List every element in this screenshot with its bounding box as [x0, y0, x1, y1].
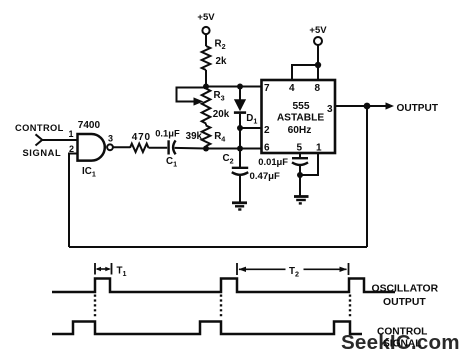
svg-text:8: 8	[315, 83, 321, 94]
svg-text:T2: T2	[289, 266, 299, 279]
wire R4 to signal node	[205, 146, 207, 149]
dotted sync line 2	[220, 295, 222, 320]
wire supply node to pin 4	[292, 65, 318, 80]
dotted sync line 3	[349, 295, 351, 320]
wire pin 5 down	[299, 153, 301, 158]
svg-text:0.1μF: 0.1μF	[155, 128, 180, 139]
svg-text:OSCILLATOR: OSCILLATOR	[372, 284, 439, 295]
wire to 555 pin 2	[240, 127, 262, 129]
svg-text:6: 6	[264, 142, 270, 153]
svg-text:2k: 2k	[216, 56, 227, 67]
svg-text:7400: 7400	[78, 120, 101, 131]
svg-text:OUTPUT: OUTPUT	[397, 103, 439, 114]
svg-text:SeekIC.com: SeekIC.com	[341, 331, 460, 354]
svg-text:R2: R2	[215, 39, 226, 52]
wire node A to 555 pin 7	[206, 86, 262, 88]
ground below pin 1	[294, 197, 309, 204]
wire signal line down to C2	[239, 149, 241, 168]
capacitor C1	[169, 140, 176, 154]
ground below C2	[232, 203, 247, 210]
label R3	[213, 90, 230, 120]
svg-text:OUTPUT: OUTPUT	[383, 297, 426, 308]
svg-text:470: 470	[132, 132, 151, 143]
wire 470 to C1	[149, 147, 168, 149]
capacitor C2	[232, 168, 248, 175]
svg-text:555: 555	[293, 101, 310, 112]
wire signal node to diode column	[206, 148, 240, 150]
wire pin2 node down to signal line	[239, 128, 241, 149]
wire C1 to signal node	[175, 147, 206, 150]
svg-text:5: 5	[297, 142, 303, 153]
wire D1 to pin2 node	[239, 114, 241, 128]
svg-text:20k: 20k	[213, 109, 230, 120]
node signal junction dot (R4/C1/pin6 line)	[203, 146, 209, 152]
svg-text:60Hz: 60Hz	[288, 125, 312, 136]
wire node to ground	[299, 175, 301, 196]
wire gate output to 470	[113, 146, 130, 148]
junction dot diode column on signal line	[237, 146, 243, 152]
wire +5V terminal to R2	[205, 34, 207, 46]
svg-text:C1: C1	[166, 156, 177, 169]
svg-text:1: 1	[69, 129, 74, 139]
dotted sync line 1	[94, 295, 96, 320]
svg-text:0.47μF: 0.47μF	[250, 171, 281, 182]
wire cap to ground node	[299, 165, 301, 175]
svg-text:0.01μF: 0.01μF	[258, 156, 288, 167]
wire pin2 feedback down	[69, 154, 78, 248]
waveform oscillator output trace	[52, 279, 395, 293]
resistor R2	[202, 46, 211, 70]
svg-text:ASTABLE: ASTABLE	[277, 113, 325, 124]
svg-text:R4: R4	[214, 131, 225, 144]
NAND gate IC1 body	[78, 134, 105, 161]
label OSCILLATOR OUTPUT	[372, 284, 439, 308]
potentiometer R3 body	[202, 89, 211, 124]
svg-text:4: 4	[289, 83, 295, 94]
resistor 470	[130, 144, 149, 152]
capacitor 0.01uF on pin 5	[292, 158, 308, 165]
wire output arrow	[367, 105, 388, 107]
junction dot diode branch on pin7 wire	[237, 84, 243, 90]
wire input to pin 1 of IC1	[42, 139, 79, 141]
waveform control signal trace	[52, 322, 362, 335]
wire C2 to ground	[239, 175, 241, 202]
label CONTROL SIGNAL	[377, 326, 427, 349]
wire signal to 555 pin 6	[240, 148, 262, 150]
svg-text:3: 3	[108, 134, 113, 144]
output arrowhead	[386, 102, 395, 109]
svg-text:R3: R3	[214, 90, 225, 103]
svg-text:2: 2	[264, 125, 270, 136]
potentiometer R3 wiper arrowhead	[194, 97, 204, 105]
svg-text:CONTROL: CONTROL	[15, 123, 64, 133]
junction dot pin2 wire	[237, 125, 243, 131]
wire +5V to pins 4,8	[317, 45, 319, 80]
node A junction dot (R2/R3/pin7)	[203, 84, 209, 90]
wire feedback: output node down	[366, 106, 368, 247]
svg-text:3: 3	[327, 104, 333, 115]
input arrow terminal	[36, 134, 43, 145]
node output junction dot	[364, 103, 371, 110]
junction dot supply node	[315, 62, 321, 68]
node +5V (right supply terminal)	[309, 25, 327, 45]
svg-text:T1: T1	[117, 266, 127, 279]
op-amp/timer U1 555 ASTABLE block	[262, 80, 336, 153]
resistor R4	[202, 126, 211, 147]
label 39k R4	[186, 131, 226, 144]
wire 555 pin 3 to output node	[335, 105, 367, 107]
diode D1	[234, 99, 246, 112]
NAND gate IC1 output bubble	[107, 144, 113, 150]
svg-text:IC1: IC1	[82, 166, 96, 179]
svg-text:D1: D1	[246, 113, 257, 126]
svg-text:+5V: +5V	[309, 25, 327, 36]
wire R3 to R4	[205, 124, 207, 126]
svg-text:39k: 39k	[186, 131, 203, 142]
wire R2 to node A	[205, 70, 207, 87]
dimension T1 ticks and arrows	[95, 263, 112, 275]
wire pin7 node down to D1	[239, 87, 241, 100]
wire pin 1 down and left	[300, 153, 318, 175]
label R2 value	[215, 39, 227, 67]
wire feedback bottom run	[69, 246, 367, 248]
node +5V (left supply terminal)	[197, 12, 215, 34]
junction dot pin1/cap	[297, 172, 303, 178]
svg-text:SIGNAL: SIGNAL	[23, 148, 62, 158]
dimension T2 ticks and arrows	[237, 263, 349, 275]
label CONTROL SIGNAL input	[15, 123, 64, 158]
potentiometer R3 wiper loop wire	[177, 88, 207, 102]
svg-text:7: 7	[264, 83, 270, 94]
svg-text:1: 1	[316, 142, 322, 153]
svg-text:+5V: +5V	[197, 12, 215, 23]
svg-text:C2: C2	[223, 153, 234, 166]
